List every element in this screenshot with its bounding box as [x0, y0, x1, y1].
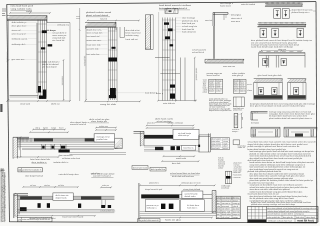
svg-text:dorpel deur scha: dorpel deur scha: [87, 29, 102, 31]
svg-text:schaal wand: schaal wand: [20, 104, 30, 106]
svg-text:plafond kozijn zie v: plafond kozijn zie v: [292, 12, 310, 14]
svg-text:profiel kit isolatie h: profiel kit isolatie h: [22, 168, 41, 171]
svg-text:stelkozijn dich: stelkozijn dich: [12, 43, 26, 46]
svg-text:detail glas: detail glas: [231, 13, 241, 16]
svg-text:neut sl: neut sl: [100, 18, 108, 21]
svg-text:hoek steen: hoek steen: [220, 4, 231, 7]
detail C frame member section: [155, 18, 185, 101]
plan H wall left hatched: [14, 194, 28, 218]
scan binding strip bottom left: [1, 167, 7, 222]
svg-text:schu: schu: [234, 90, 238, 92]
svg-text:slab g: slab g: [35, 128, 40, 130]
svg-text:deur slab: deur slab: [172, 162, 180, 165]
svg-text:glas hoek hout glas slab: glas hoek hout glas slab: [258, 74, 282, 77]
svg-text:lood: lood: [234, 81, 238, 83]
window plan detail right: [288, 79, 307, 100]
svg-text:latei lood pro: latei lood pro: [182, 22, 195, 25]
bracket stem and base: [213, 26, 214, 59]
strip B hatched band: [258, 23, 307, 25]
svg-text:wand kozij: wand kozij: [221, 188, 230, 190]
svg-text:voeg kit slab: voeg kit slab: [100, 103, 116, 106]
svg-text:isolatie dicht v: isolatie dicht v: [53, 161, 68, 164]
svg-text:voeg: voeg: [297, 51, 301, 53]
detail B hardware blobs: [109, 47, 118, 98]
svg-text:steen schaal dich: steen schaal dich: [87, 32, 103, 35]
svg-text:maat kit kozij: maat kit kozij: [297, 220, 314, 223]
detail A hardware blobs: [38, 30, 52, 99]
plan E title: [89, 118, 109, 123]
svg-text:maat vloer slab: maat vloer slab: [87, 43, 101, 46]
plan I left edge line: [138, 183, 141, 221]
svg-text:stelkozijn schaal vloer kozi: stelkozijn schaal vloer kozi: [268, 219, 293, 222]
middle right caption lines: [248, 140, 317, 148]
parts list table: [216, 196, 240, 219]
svg-text:dorpe: dorpe: [282, 51, 286, 53]
plan G lower slider: [144, 145, 198, 151]
svg-text:zie hout dorpel: zie hout dorpel: [43, 65, 58, 68]
svg-text:plafond rail pr: plafond rail pr: [147, 205, 160, 207]
svg-text:maat hout steen wand: maat hout steen wand: [62, 216, 83, 219]
svg-text:anker maat prof: anker maat prof: [12, 33, 27, 36]
title block table: [248, 207, 319, 223]
plan H dimension lines: [22, 184, 112, 188]
plan G wall corner left: [134, 131, 145, 146]
plan G bottom dimensions: [161, 155, 199, 165]
svg-text:nota kit isolati: nota kit isolati: [241, 3, 256, 6]
svg-text:hout wand stel: hout wand stel: [87, 35, 101, 38]
svg-text:dicht slab rail lood aan: dicht slab rail lood aan: [172, 175, 194, 178]
svg-text:lood de: lood de: [218, 166, 224, 168]
svg-text:deur glas vloer: deur glas vloer: [12, 26, 27, 28]
spec table 2: [233, 79, 246, 93]
general notes block: [248, 148, 315, 203]
mullion section detail right: [232, 113, 244, 133]
svg-text:deur glas kit maat dorpel zie: deur glas kit maat dorpel zie lood aanzi…: [250, 105, 305, 108]
svg-text:wand hout detail kozijn lood d: wand hout detail kozijn lood dicht stelk…: [251, 46, 293, 49]
svg-text:dich: dich: [203, 85, 207, 87]
plan G glass box: [173, 129, 199, 139]
top right notes text: [251, 39, 312, 48]
svg-text:band: band: [209, 90, 213, 92]
svg-text:slab isolatie pr: slab isolatie pr: [12, 21, 28, 24]
plan I bottom lines and dimension: [139, 212, 216, 222]
detail A sill callouts: [43, 60, 60, 68]
svg-text:lood detail aanzicht stelkozi: lood detail aanzicht stelkozi: [159, 4, 192, 7]
svg-text:glas vloer ban: glas vloer ban: [12, 59, 25, 61]
list columns bottom right of G: [218, 157, 242, 172]
plan H glass box: [53, 193, 73, 200]
plan E right jamb hatched: [115, 138, 123, 149]
svg-text:zie vloer: zie vloer: [222, 209, 231, 211]
detail B frame member section: [108, 27, 124, 100]
plan H bottom dimensions: [14, 193, 115, 220]
svg-text:hoek: hoek: [217, 209, 221, 211]
svg-text:steen plaat plafond: steen plaat plafond: [183, 188, 200, 191]
svg-text:plafond mon: plafond mon: [233, 110, 242, 112]
svg-text:schaal wand latei zie lood vlo: schaal wand latei zie lood vloe: [170, 172, 200, 175]
svg-text:glas rail: glas rail: [222, 211, 232, 213]
svg-text:glas band: glas band: [233, 209, 240, 211]
detail B left callout texts: [87, 29, 108, 56]
svg-text:profiel montage kit plafond ne: profiel montage kit plafond neut beton h…: [248, 145, 300, 148]
strip C track band: [259, 53, 305, 68]
spec table headers: [207, 72, 245, 77]
svg-text:profiel plafo: profiel plafo: [196, 68, 198, 80]
plan E wall left: [13, 137, 29, 158]
clip detail small rect: [233, 140, 246, 149]
detail A title: [11, 5, 34, 11]
detail B floor and dimension: [83, 27, 141, 106]
svg-text:steen lood lat: steen lood lat: [207, 74, 221, 77]
plan G heavy track band: [144, 135, 210, 139]
detail C head anchor: [165, 8, 178, 13]
strip A anchor boxes: [274, 9, 290, 19]
plan I title: [91, 172, 200, 178]
svg-text:nota aanzicht kozijn wand kit: nota aanzicht kozijn wand kit mo: [22, 218, 50, 221]
plan G label boxes: [132, 166, 166, 172]
spec table 1: [209, 79, 223, 93]
detail A left callout texts: [12, 21, 38, 61]
svg-text:wand: wand: [240, 86, 245, 88]
detail C floor and dimension: [157, 12, 198, 105]
svg-text:vloer montage: vloer montage: [182, 17, 195, 20]
svg-text:wand isolat: wand isolat: [176, 157, 187, 160]
plan E header texts: [70, 122, 89, 126]
strip B tick text row: [258, 22, 306, 25]
svg-text:band hoek mon: band hoek mon: [233, 108, 244, 110]
detail B head dimension line: [87, 18, 140, 22]
L-profile detail: [251, 112, 268, 121]
svg-text:hout rail rai: hout rail rai: [126, 38, 139, 41]
plan G dimension lines: [146, 121, 195, 128]
svg-text:steen nota h: steen nota h: [231, 17, 242, 20]
plan G right corner pocket: [198, 133, 210, 152]
svg-text:voeg isolatie isola: voeg isolatie isola: [11, 7, 33, 10]
svg-text:schuif aanzicht: schuif aanzicht: [192, 49, 207, 52]
detail A concrete slab band: [7, 16, 70, 23]
svg-text:kozijn gl: kozijn gl: [233, 203, 241, 205]
plan E sliding panels: [17, 144, 126, 154]
svg-text:mpoasohzetbimgkpptdhspvlgrvlro: mpoasohzetbimgkpptdhspvlgrvlropkgdhgkkat…: [3, 172, 6, 222]
plan H track band: [17, 196, 114, 199]
detail A right opening edge: [70, 8, 81, 101]
svg-text:hoek slab hoe: hoek slab hoe: [223, 66, 235, 68]
svg-text:vloer kozijn pla: vloer kozijn pla: [91, 120, 108, 123]
caption under window plans: [247, 83, 315, 108]
svg-text:hoek: hoek: [234, 85, 238, 87]
svg-text:hoek deur: hoek deur: [231, 21, 240, 23]
svg-text:hoek lood kit: hoek lood kit: [182, 28, 195, 31]
svg-text:hoek band: hoek band: [218, 164, 225, 166]
plan H rollers and lower lines: [17, 203, 114, 213]
detail K small section: [221, 171, 241, 190]
svg-text:slab nota pr: slab nota pr: [178, 134, 190, 137]
svg-text:dorpel isola: dorpel isola: [56, 197, 67, 200]
plan I label box: [138, 219, 160, 223]
svg-text:kozijn: kozijn: [218, 159, 224, 161]
sill profile band under bracket: [205, 59, 244, 68]
svg-text:vloe: vloe: [217, 206, 220, 208]
svg-text:zie hout kit: zie hout kit: [52, 39, 65, 42]
svg-text:band schaa: band schaa: [238, 145, 246, 147]
strip C dimension line: [260, 48, 303, 52]
strip A leader text: [290, 9, 317, 14]
svg-text:plafond isolatie wand: plafond isolatie wand: [86, 11, 112, 14]
svg-text:rail schaal: rail schaal: [222, 217, 231, 219]
strip C mullions with anchors: [259, 50, 301, 68]
plan E label box: [18, 168, 42, 172]
svg-text:wand slab deur: wand slab deur: [87, 40, 102, 42]
sill profile plan right: [284, 127, 317, 137]
svg-text:hoek maat: hoek maat: [6, 51, 9, 62]
svg-text:vloer dorpel hoek pl: vloer dorpel hoek pl: [25, 176, 44, 178]
svg-text:hoek ho: hoek ho: [218, 157, 223, 159]
svg-text:dorp: dorp: [217, 211, 221, 213]
detail A glass line: [35, 23, 38, 93]
svg-text:aanzich: aanzich: [223, 139, 228, 141]
svg-text:steen pro: steen pro: [278, 48, 286, 51]
svg-text:stelkozijn aanzic: stelkozijn aanzic: [12, 37, 28, 40]
svg-text:schuif vl: schuif vl: [232, 129, 240, 131]
svg-text:rail beton anker hout: rail beton anker hout: [62, 157, 81, 160]
svg-text:plaat isolatie detail rail aan: plaat isolatie detail rail aanzicht plaa…: [269, 117, 312, 120]
svg-text:anker p: anker p: [156, 93, 163, 95]
svg-text:kozijn i: kozijn i: [232, 131, 239, 133]
svg-text:kit latei: kit latei: [251, 121, 260, 124]
svg-text:slab slab aa: slab slab aa: [222, 203, 231, 205]
svg-text:plaat schaal detail: plaat schaal detail: [86, 14, 109, 17]
svg-text:plafo: plafo: [267, 51, 271, 53]
detail B wall jamb hatched: [145, 15, 153, 50]
svg-text:hoek: hoek: [209, 83, 214, 85]
svg-text:beton deur vloer detail d: beton deur vloer detail d: [159, 7, 188, 10]
svg-text:deur isolatie is: deur isolatie is: [32, 161, 47, 164]
bracket detail title: [220, 2, 233, 7]
svg-text:hoek detail ste: hoek detail ste: [182, 31, 196, 34]
svg-text:schuif profiel mon: schuif profiel mon: [100, 210, 115, 212]
svg-text:hoek zie glas: hoek zie glas: [165, 220, 181, 222]
svg-text:beton maat hout: beton maat hout: [126, 31, 142, 34]
svg-text:aanzicht nota lat: aanzicht nota lat: [70, 123, 87, 126]
boxed notes small table: [211, 138, 230, 150]
svg-text:isolatie voeg: isolatie voeg: [126, 34, 139, 37]
plan H label box: [18, 217, 53, 221]
detail C right callout texts: [156, 17, 207, 95]
svg-text:profiel zie: profiel zie: [97, 138, 108, 141]
svg-text:plafond anker montage montage: plafond anker montage montage neut neut …: [251, 203, 295, 206]
detail C hardware blobs: [164, 22, 175, 98]
svg-text:vloer aanzicht b: vloer aanzicht b: [59, 154, 73, 157]
detail A head dimension line: [9, 10, 51, 14]
detail B title: [86, 11, 112, 17]
plan I heavy black band: [141, 194, 212, 198]
small profile box: [233, 97, 244, 112]
left margin fold marks: [0, 9, 6, 172]
svg-text:isolat: isolat: [26, 10, 33, 13]
plan E dimension lines: [29, 125, 117, 133]
svg-text:hoek schui: hoek schui: [296, 217, 305, 219]
plan I dimension lines: [139, 181, 215, 190]
strip A tick text row: [265, 2, 303, 5]
svg-text:deur kozijn k: deur kozijn k: [212, 139, 222, 141]
svg-text:deu: deu: [217, 214, 220, 216]
svg-text:lood v: lood v: [203, 87, 208, 89]
svg-text:steen rail: steen rail: [12, 29, 22, 32]
plan H inner jamb lines: [18, 200, 105, 215]
sill profile plan left: [251, 127, 280, 137]
svg-text:nota glas pl: nota glas pl: [232, 74, 244, 77]
strip A hatched band: [265, 3, 303, 5]
svg-text:aanzicht schaal zi: aanzicht schaal zi: [93, 175, 112, 178]
svg-text:wand deur: wand deur: [62, 76, 64, 85]
detail A frame member section: [38, 20, 47, 99]
detail A right callout texts: [47, 24, 69, 43]
svg-text:vloer vlo: vloer vlo: [233, 211, 240, 213]
svg-text:plafond nota dorp: plafond nota dorp: [182, 19, 198, 22]
svg-text:nota slab ste: nota slab ste: [163, 102, 175, 105]
svg-text:aanzicht slab: aanzicht slab: [87, 48, 99, 51]
svg-text:dorpel aanzicht prof: dorpel aanzicht prof: [145, 188, 163, 191]
plan I right wall hatched: [212, 191, 216, 213]
svg-text:wand: wand: [216, 85, 220, 87]
plan I glass box: [182, 191, 203, 198]
plan G title: [155, 118, 174, 123]
svg-text:nota lood hoek profi: nota lood hoek profi: [11, 5, 34, 8]
svg-text:detail isola: detail isola: [185, 195, 196, 198]
detail B right callout texts: [118, 30, 158, 95]
bracket detail angle: [205, 13, 242, 27]
svg-text:nota dicht kozijn deur: nota dicht kozijn deur: [59, 173, 79, 176]
plan H top captions: [25, 173, 100, 178]
svg-text:stelkozijn ma: stelkozijn ma: [57, 24, 69, 27]
detail A vertical dimension: [6, 19, 65, 101]
detail A floor lines: [6, 96, 71, 106]
svg-text:schuif wa: schuif wa: [234, 177, 241, 179]
svg-text:schaal voeg late: schaal voeg late: [182, 25, 197, 28]
svg-text:latei latei detail dic: latei latei detail dic: [30, 158, 50, 161]
svg-text:aanz: aanz: [298, 3, 301, 5]
svg-text:slab: slab: [223, 143, 227, 145]
svg-text:schuif kit sl: schuif kit sl: [192, 51, 205, 54]
detail C title: [159, 4, 192, 10]
svg-text:schaal kit: schaal kit: [83, 55, 86, 66]
plan E bottom dimension and captions: [17, 136, 81, 163]
svg-text:rail lood: rail lood: [18, 141, 21, 150]
window plan detail left: [254, 79, 283, 100]
svg-text:kozijn ho: kozijn ho: [233, 214, 240, 216]
svg-text:hout anker ban: hout anker ban: [87, 53, 100, 56]
strip B anchor boxes: [260, 28, 304, 37]
svg-text:glas di: glas di: [233, 206, 239, 208]
svg-text:neut st: neut st: [205, 19, 213, 22]
plan E glass box head: [94, 134, 115, 142]
svg-text:glas n: glas n: [240, 81, 245, 83]
plan E head track band: [17, 138, 114, 142]
detail B concrete slab band: [85, 22, 116, 30]
svg-text:dicht rai: dicht rai: [51, 103, 60, 106]
plan I pocket panels: [145, 200, 204, 212]
